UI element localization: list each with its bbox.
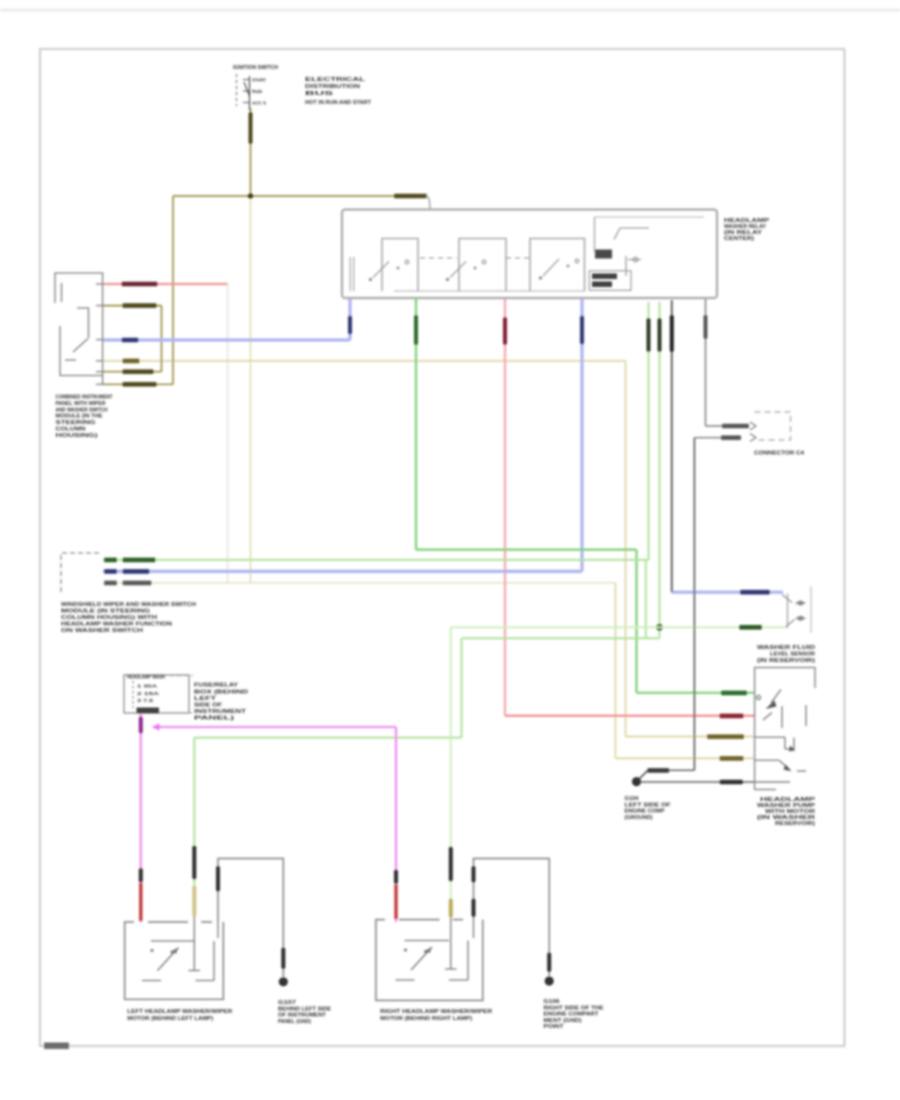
- svg-text:G106: G106: [544, 999, 560, 1005]
- svg-text:BEHIND LEFT SIDE: BEHIND LEFT SIDE: [278, 1006, 331, 1012]
- svg-text:WASHER FLUID: WASHER FLUID: [757, 645, 815, 651]
- svg-text:2 15A: 2 15A: [137, 691, 160, 697]
- svg-text:POINT: POINT: [544, 1024, 565, 1030]
- svg-text:MODULE (IN THE: MODULE (IN THE: [56, 414, 103, 420]
- svg-text:IGNITION SWITCH: IGNITION SWITCH: [233, 65, 278, 71]
- svg-text:SIDE OF: SIDE OF: [194, 703, 223, 709]
- svg-text:HOT IN RUN AND START: HOT IN RUN AND START: [305, 100, 372, 106]
- svg-text:PANEL (GND): PANEL (GND): [278, 1019, 311, 1025]
- svg-text:INSTRUMENT: INSTRUMENT: [194, 709, 247, 715]
- svg-text:COLUMN HOUSING) WITH: COLUMN HOUSING) WITH: [61, 615, 157, 621]
- svg-text:G107: G107: [278, 1000, 296, 1006]
- svg-text:MOTOR (BEHIND RIGHT LAMP): MOTOR (BEHIND RIGHT LAMP): [380, 1016, 472, 1022]
- svg-text:RESERVOIR): RESERVOIR): [775, 821, 815, 827]
- svg-text:WINDSHIELD WIPER AND WASHER SW: WINDSHIELD WIPER AND WASHER SWITCH: [61, 602, 196, 608]
- svg-text:(IN RESERVOIR): (IN RESERVOIR): [757, 658, 815, 664]
- svg-text:(GROUND): (GROUND): [625, 815, 653, 821]
- svg-text:HEADLAMP WASH: HEADLAMP WASH: [127, 675, 165, 681]
- svg-text:PANEL): PANEL): [194, 716, 234, 722]
- svg-text:ELECTRICAL: ELECTRICAL: [305, 77, 366, 83]
- svg-text:PANEL WITH WIPER: PANEL WITH WIPER: [56, 401, 106, 407]
- svg-text:HEADLAMP WASHER FUNCTION: HEADLAMP WASHER FUNCTION: [61, 622, 172, 628]
- svg-text:START: START: [252, 78, 266, 84]
- svg-text:RIGHT SIDE OF THE: RIGHT SIDE OF THE: [544, 1005, 604, 1011]
- svg-text:CENTER): CENTER): [724, 236, 754, 242]
- svg-text:BOX (BEHIND: BOX (BEHIND: [194, 690, 248, 696]
- svg-text:ACC S: ACC S: [252, 101, 267, 107]
- svg-text:MOTOR (BEHIND LEFT LAMP): MOTOR (BEHIND LEFT LAMP): [127, 1016, 213, 1022]
- svg-text:ENGINE COMPART: ENGINE COMPART: [544, 1012, 600, 1018]
- svg-text:MODULE (IN STEERING: MODULE (IN STEERING: [61, 609, 150, 615]
- svg-text:ENGINE COMP: ENGINE COMP: [625, 809, 665, 815]
- svg-text:LEFT: LEFT: [194, 696, 217, 702]
- svg-text:AND WASHER SWITCH: AND WASHER SWITCH: [56, 407, 108, 413]
- svg-text:G104: G104: [625, 796, 640, 802]
- svg-text:1 30A: 1 30A: [137, 684, 158, 690]
- svg-text:FUSE/RELAY: FUSE/RELAY: [194, 683, 238, 689]
- svg-text:3 7.5: 3 7.5: [137, 698, 153, 704]
- svg-text:CONNECTOR C4: CONNECTOR C4: [754, 451, 805, 457]
- svg-text:COMBINED INSTRUMENT: COMBINED INSTRUMENT: [56, 395, 114, 401]
- svg-text:MENT (GND): MENT (GND): [544, 1018, 582, 1024]
- svg-text:LEFT HEADLAMP WASHER/WIPER: LEFT HEADLAMP WASHER/WIPER: [127, 1009, 232, 1015]
- svg-text:RIGHT HEADLAMP WASHER/WIPER: RIGHT HEADLAMP WASHER/WIPER: [380, 1009, 492, 1015]
- svg-text:COLUMN: COLUMN: [56, 427, 86, 433]
- svg-text:LEFT SIDE OF: LEFT SIDE OF: [625, 802, 672, 808]
- svg-text:DISTRIBUTION: DISTRIBUTION: [305, 84, 360, 90]
- svg-text:OF INSTRUMENT: OF INSTRUMENT: [278, 1013, 327, 1019]
- svg-text:STEERING: STEERING: [56, 420, 96, 426]
- svg-text:HOUSING): HOUSING): [56, 433, 98, 439]
- svg-text:RUN: RUN: [252, 89, 263, 95]
- svg-text:LEVEL SENSOR: LEVEL SENSOR: [770, 652, 815, 658]
- svg-text:ON WASHER SWITCH: ON WASHER SWITCH: [61, 628, 143, 634]
- svg-text:BUS: BUS: [305, 91, 334, 97]
